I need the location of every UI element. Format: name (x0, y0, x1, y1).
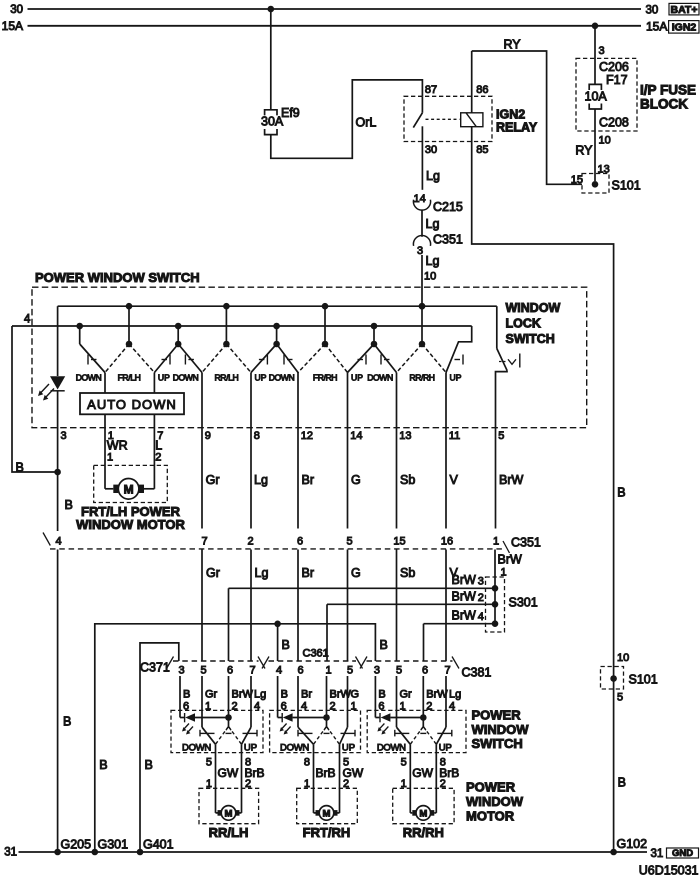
svg-text:RELAY: RELAY (496, 121, 538, 135)
wire L to motor brush (144, 488, 154, 490)
svg-text:1: 1 (107, 452, 113, 464)
svg-text:Ef9: Ef9 (281, 106, 300, 120)
junction dot S101 right (610, 675, 617, 682)
wire Lg into RR/RH switch (445, 676, 447, 727)
labels FRT/RH connector pins (281, 701, 357, 713)
junction dot feed stub 2 (175, 341, 182, 348)
label DOWN RR/RH (377, 743, 406, 754)
svg-text:RR/RH: RR/RH (403, 825, 444, 840)
wire pin7 (L) (153, 373, 155, 489)
label pin 85 (476, 144, 488, 156)
junction dot FR/RH stub (322, 341, 329, 348)
junction dot BrW RR/LH (225, 714, 232, 721)
junction dot BrW RR/RH (420, 714, 427, 721)
actuator bar RR/RH (395, 730, 452, 737)
svg-text:11: 11 (449, 430, 460, 442)
window lock switch contact (496, 306, 508, 428)
window lock switch actuator mark (499, 354, 520, 368)
svg-text:31: 31 (4, 847, 17, 859)
label OrL (356, 116, 377, 130)
svg-text:U6D15031: U6D15031 (639, 864, 699, 878)
svg-text:85: 85 (476, 144, 488, 156)
wire G into FRT/RH switch (347, 676, 349, 727)
label 31 right (651, 848, 664, 860)
actuator bar FRT/RH (298, 730, 355, 737)
junction dot FR/LH on upper bus (126, 303, 133, 310)
label RY mid (575, 144, 593, 158)
label C371 (140, 661, 170, 675)
junction dot BrW FRT/RH (323, 714, 330, 721)
label 31 left (4, 847, 17, 859)
svg-text:G: G (351, 689, 360, 701)
junction dot S301-3 (492, 585, 499, 592)
svg-text:I/P FUSE: I/P FUSE (640, 83, 696, 98)
svg-text:5: 5 (200, 665, 206, 677)
svg-text:Lg: Lg (426, 217, 440, 231)
svg-text:POWER WINDOW SWITCH: POWER WINDOW SWITCH (35, 270, 200, 285)
switch FR/LH center stub (128, 306, 130, 344)
LED feed RR/LH (180, 713, 229, 722)
svg-text:Lg: Lg (254, 473, 268, 487)
junction dot feed stub 3 (273, 341, 280, 348)
label C351 (511, 536, 541, 550)
switch RR/RH throw dashes (410, 727, 436, 745)
svg-text:B: B (65, 498, 73, 512)
actuator bar RR/LH (200, 730, 257, 737)
wire V chain upper (445, 373, 447, 529)
svg-text:B: B (63, 715, 71, 729)
svg-text:B: B (380, 638, 388, 652)
label 3 below C351 (417, 245, 423, 257)
switch FR/LH UP feed (154, 344, 178, 373)
svg-text:Lg: Lg (255, 566, 269, 580)
fuse Ef9 30A symbol (265, 110, 277, 135)
svg-text:30: 30 (10, 4, 23, 16)
label S101 top (612, 179, 641, 193)
svg-text:6: 6 (297, 665, 303, 677)
label 15A right (646, 20, 667, 34)
svg-text:DOWN: DOWN (280, 743, 309, 754)
wire Lg chain lower (250, 550, 252, 662)
terminal box BAT+ (669, 3, 699, 16)
svg-text:B: B (618, 776, 626, 790)
svg-text:B: B (281, 689, 288, 701)
label motor pin 1 (107, 452, 113, 464)
wire BrB FRT/RH (314, 744, 316, 813)
svg-text:BrW: BrW (330, 689, 352, 701)
wire BrW into RR/LH switch (228, 676, 230, 727)
wire Br into FRT/RH switch (297, 676, 299, 727)
wire Br chain upper (297, 373, 299, 529)
label UP group 3 (351, 373, 363, 383)
wire WR to motor brush (105, 488, 113, 490)
svg-text:GW: GW (218, 766, 239, 780)
switch FR/LH DOWN throw (dashed) (105, 344, 129, 373)
component box RR/RH motor (393, 788, 454, 823)
wire Ef9 to relay pin 87 (OrL) (271, 80, 423, 158)
component box RR/LH motor (199, 788, 259, 823)
svg-text:RR/LH: RR/LH (209, 825, 249, 840)
svg-text:12: 12 (301, 430, 313, 442)
switch RR/LH center stub (225, 306, 227, 344)
wire Gr chain upper (201, 373, 203, 529)
relay U-IGN2 box (404, 96, 492, 141)
svg-text:M: M (225, 809, 233, 820)
svg-text:15A: 15A (2, 19, 23, 33)
junction dot feed 1 on lower bus (76, 323, 83, 330)
junction dot feed 2 on lower bus (175, 323, 182, 330)
label B pin3 upper (65, 498, 73, 512)
wire F17 to S101 (RY) (594, 26, 596, 181)
label UP group 1 (158, 373, 170, 383)
svg-text:5: 5 (206, 757, 212, 769)
terminal box GND (667, 848, 699, 859)
label 3 above C206 (599, 45, 605, 57)
switch FR/LH DOWN feed (80, 326, 105, 373)
label I/P FUSE BLOCK (640, 83, 696, 112)
terminal box IGN2 (669, 21, 699, 34)
junction dot S101 top (592, 181, 599, 188)
junction dot feed 3 on lower bus (273, 323, 280, 330)
svg-text:UP: UP (244, 743, 257, 754)
labels RR/RH motor wires (401, 757, 460, 791)
svg-text:Br: Br (302, 566, 315, 580)
label IGN2 RELAY (496, 108, 538, 135)
switch FR/RH UP feed stub (373, 326, 375, 344)
switch FR/RH DOWN feed (277, 344, 298, 373)
svg-text:IGN2: IGN2 (496, 108, 525, 122)
wire V chain lower (445, 550, 447, 662)
svg-text:C206: C206 (599, 60, 629, 74)
svg-text:C208: C208 (599, 116, 629, 130)
component box FRT/LH motor (94, 465, 168, 502)
switch RR/LH throw dashes (216, 727, 242, 745)
svg-text:7: 7 (249, 665, 255, 677)
svg-text:RR/RH: RR/RH (409, 373, 434, 383)
LED arrows FRT/RH (280, 724, 291, 735)
wire Gr into RR/LH switch (201, 676, 203, 727)
junction dot B/C361-4 (274, 621, 281, 628)
wire B into FRT/RH switch (277, 676, 279, 718)
svg-text:M: M (419, 809, 427, 820)
actuator mark left group 1 (88, 355, 97, 365)
wire relay pin 86 riser (471, 51, 473, 113)
svg-text:2: 2 (478, 592, 484, 604)
label 15 at S101 (571, 174, 583, 186)
label S101 right (629, 673, 658, 687)
wire B into RR/LH switch (179, 676, 181, 718)
label Ef9 (281, 106, 300, 120)
svg-text:RR/LH: RR/LH (215, 373, 239, 383)
svg-text:B: B (617, 486, 625, 500)
switch RR/LH DOWN feed (178, 344, 202, 373)
svg-text:G401: G401 (143, 838, 174, 852)
relay contact 87-30 (413, 96, 422, 141)
label 30A (261, 115, 284, 129)
svg-text:7: 7 (444, 665, 450, 677)
svg-text:1: 1 (325, 665, 331, 677)
wire BrW3 branch (229, 588, 496, 661)
switch RR/LH UP throw (dashed) (226, 344, 251, 373)
svg-text:FR/RH: FR/RH (313, 373, 337, 383)
LED arrows RR/LH (182, 724, 193, 735)
wire Br chain lower (297, 550, 299, 662)
motor FRT/LH (118, 479, 139, 500)
svg-text:15: 15 (393, 536, 405, 548)
label BrW pin1 below C351 (498, 553, 523, 579)
label POWER WINDOW SWITCH (35, 270, 200, 285)
svg-text:6: 6 (422, 665, 428, 677)
label pin 86 (476, 84, 488, 96)
label B G401 wire (145, 758, 153, 772)
motor RR/LH brushes (218, 810, 240, 816)
svg-text:B: B (183, 689, 190, 701)
svg-text:3: 3 (374, 665, 380, 677)
wire BrB RR/RH (434, 744, 436, 813)
label 5 S101 (617, 692, 623, 704)
switch RR/LH throw split (226, 727, 231, 731)
svg-text:4: 4 (478, 611, 484, 623)
ground G401 (137, 838, 174, 856)
wire upper feed bus (58, 305, 497, 307)
label pin 87 (425, 84, 437, 96)
label 10A (585, 90, 608, 104)
switch RR/LH UP feed stub (276, 326, 278, 344)
wire left jog down (12, 326, 58, 472)
labels switch box pin numbers (108, 430, 505, 442)
wire Lg into RR/LH switch (250, 676, 252, 727)
wire Gr into RR/RH switch (396, 676, 398, 727)
svg-text:8: 8 (304, 757, 310, 769)
component box FRT/RH switch (270, 710, 361, 752)
label 10 (424, 271, 436, 283)
svg-text:G: G (351, 473, 361, 487)
svg-text:B: B (99, 758, 107, 772)
label 15A left (2, 19, 23, 33)
splice S101 right box (601, 667, 624, 690)
svg-text:30A: 30A (261, 115, 284, 129)
svg-text:M: M (124, 483, 134, 497)
switch FR/RH center stub (324, 306, 326, 344)
svg-text:UP: UP (351, 373, 363, 383)
actuator mark right group 3 (358, 355, 367, 365)
svg-text:5: 5 (346, 536, 352, 548)
LED arrows (38, 384, 54, 401)
label B drop1 (282, 638, 290, 652)
svg-text:WINDOW: WINDOW (472, 722, 530, 737)
wire G chain upper (347, 373, 349, 529)
wire relay85 to ground (B) (472, 127, 614, 852)
wire BrW4 branch (424, 624, 496, 661)
label Lg 2 (426, 217, 440, 231)
junction dot FR/RH on upper bus (322, 303, 329, 310)
splice S301 box (486, 577, 505, 632)
svg-text:OrL: OrL (356, 116, 377, 130)
wire Lg chain upper (250, 373, 252, 529)
svg-text:C381: C381 (462, 666, 492, 680)
svg-text:5: 5 (498, 430, 504, 442)
junction dot feed 4 on lower bus (371, 323, 378, 330)
label 30 right (646, 5, 659, 17)
svg-text:87: 87 (425, 84, 437, 96)
svg-text:Gr: Gr (205, 689, 218, 701)
label UP FRT/RH (342, 743, 355, 754)
labels wire colors row1 (206, 473, 524, 487)
svg-text:BrW: BrW (499, 473, 524, 487)
label B left jog (16, 461, 24, 475)
label FRT/LH POWER WINDOW MOTOR (76, 504, 185, 532)
component box FRT/RH motor (297, 788, 358, 823)
svg-text:5: 5 (347, 665, 353, 677)
svg-text:DOWN: DOWN (367, 373, 393, 383)
label DOWN RR/LH (182, 743, 211, 754)
svg-text:30: 30 (646, 5, 659, 17)
svg-text:31: 31 (651, 848, 664, 860)
svg-text:BLOCK: BLOCK (640, 97, 688, 112)
svg-text:S301: S301 (509, 596, 538, 610)
label POWER WINDOW SWITCH right (472, 708, 530, 752)
label B pin3 lower (63, 715, 71, 729)
switch FRT/RH throw dashes (314, 727, 340, 745)
svg-text:IGN2: IGN2 (672, 21, 697, 33)
label DOWN group 3 (269, 373, 295, 383)
wire pin3 B down (57, 391, 59, 852)
actuator mark right group 4 (455, 355, 464, 365)
wire between C215 C351 (421, 210, 423, 237)
svg-text:SWITCH: SWITCH (472, 736, 523, 751)
wire pin1 (WR) (104, 373, 106, 489)
svg-text:S101: S101 (612, 179, 641, 193)
svg-text:UP: UP (255, 373, 267, 383)
svg-text:UP: UP (342, 743, 355, 754)
wire C351 to switch bus (Lg) (421, 255, 423, 306)
label RR/LH (209, 825, 249, 840)
label BrW 2 (452, 589, 484, 604)
svg-text:S101: S101 (629, 673, 658, 687)
label POWER WINDOW MOTOR right (466, 780, 524, 824)
actuator mark left group 2 (185, 355, 194, 365)
wire Sb chain upper (396, 373, 398, 529)
labels RR/LH motor wires (206, 757, 265, 791)
label UP group 4 (450, 373, 462, 383)
svg-text:14: 14 (414, 193, 426, 205)
splice S101 top box (582, 174, 609, 194)
svg-text:FR/LH: FR/LH (118, 373, 141, 383)
switch RR/RH UP feed jog (446, 326, 472, 373)
labels wire colors row2 (206, 566, 459, 580)
svg-text:UP: UP (158, 373, 170, 383)
svg-text:86: 86 (476, 84, 488, 96)
junction dot FR/LH stub (126, 341, 133, 348)
junction dot RR/LH stub (223, 341, 230, 348)
svg-text:15A: 15A (646, 20, 667, 34)
wire BrW chain (494, 428, 497, 624)
svg-text:10: 10 (617, 652, 629, 664)
label WINDOW LOCK SWITCH (506, 301, 561, 346)
svg-text:16: 16 (441, 536, 453, 548)
svg-text:WINDOW: WINDOW (466, 794, 524, 809)
wire G301 B routing (95, 624, 376, 852)
svg-text:V: V (450, 473, 459, 487)
LED feed FRT/RH (278, 713, 327, 722)
wire Gr chain lower (201, 550, 203, 662)
svg-text:WINDOW MOTOR: WINDOW MOTOR (76, 517, 185, 532)
switch RR/RH DOWN contact (397, 727, 411, 744)
svg-text:3: 3 (478, 576, 484, 588)
svg-text:G301: G301 (98, 838, 129, 852)
label RY top (504, 38, 522, 52)
switch FR/RH UP feed (348, 344, 375, 373)
label pin 30 (425, 144, 437, 156)
svg-text:RY: RY (504, 38, 522, 52)
labels FRT/RH motor wires (304, 757, 364, 791)
switch RR/RH center stub (421, 306, 423, 344)
junction dot S301-2 (492, 601, 499, 608)
connector line C371 (167, 657, 266, 669)
label UP RR/LH (244, 743, 257, 754)
wire BrB RR/LH (240, 744, 242, 813)
svg-text:MOTOR: MOTOR (466, 809, 515, 824)
wire B into RR/RH switch (374, 676, 376, 718)
label DOWN FRT/RH (280, 743, 309, 754)
component box POWER WINDOW SWITCH (32, 287, 587, 428)
svg-text:GW: GW (412, 766, 433, 780)
svg-text:3: 3 (599, 45, 605, 57)
svg-text:Lg: Lg (449, 689, 461, 701)
labels RR/LH wire colors (183, 689, 266, 701)
label FRT/RH (303, 825, 351, 840)
switch RR/RH throw split (421, 727, 426, 731)
svg-text:14: 14 (350, 430, 362, 442)
motor RR/RH brushes (412, 810, 434, 816)
actuator mark left group 4 (381, 355, 390, 365)
labels RR/RH wire colors (378, 689, 461, 701)
LED feed RR/RH (375, 713, 423, 722)
label motor pin 2 (155, 452, 161, 464)
wire GW FRT/RH (338, 744, 340, 813)
switch RR/LH UP contact (242, 727, 252, 744)
svg-text:3: 3 (178, 665, 184, 677)
svg-text:10: 10 (424, 271, 436, 283)
wire G chain lower (347, 550, 349, 662)
switch RR/LH UP feed (251, 344, 277, 373)
label DOWN group 4 (367, 373, 393, 383)
junction dot Lg on upper bus (419, 303, 426, 310)
wire RY relay86 to S101 (472, 51, 582, 184)
svg-text:Gr: Gr (206, 566, 220, 580)
svg-text:Sb: Sb (400, 473, 415, 487)
svg-text:10A: 10A (585, 90, 608, 104)
svg-text:5: 5 (401, 757, 407, 769)
svg-text:WINDOW: WINDOW (506, 301, 561, 315)
svg-text:BrW: BrW (452, 608, 477, 622)
connector C215 half (413, 200, 430, 210)
wire BrW into RR/RH switch (422, 676, 424, 727)
label C206 (599, 60, 629, 74)
svg-text:5: 5 (617, 692, 623, 704)
switch FR/LH UP throw (dashed) (129, 344, 154, 373)
label 3 pin (61, 430, 67, 442)
svg-text:4: 4 (276, 665, 282, 677)
svg-text:C215: C215 (433, 200, 463, 214)
svg-text:BrW: BrW (498, 553, 523, 567)
svg-text:UP: UP (450, 373, 462, 383)
svg-text:7: 7 (201, 536, 207, 548)
connector line C351 (43, 533, 510, 554)
svg-text:C361: C361 (303, 648, 329, 660)
svg-text:UP: UP (439, 743, 452, 754)
svg-text:Lg: Lg (426, 254, 440, 268)
